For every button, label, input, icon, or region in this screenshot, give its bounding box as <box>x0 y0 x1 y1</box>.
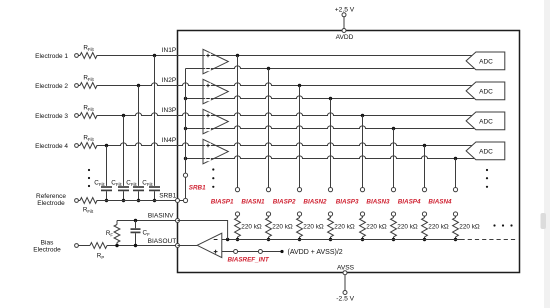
wire ref electrode to RFilt <box>78 200 80 202</box>
switch BIASN2 open <box>328 188 332 217</box>
svg-text:CF: CF <box>143 230 151 238</box>
resistor 220k 8 <box>453 218 480 237</box>
switch BIASN4 open <box>453 188 457 217</box>
wire switch BIASP4 to resistor <box>424 216 426 218</box>
wire Cfilt column 3 top <box>138 86 140 186</box>
wire BIASINV external <box>117 219 178 222</box>
net BIASP2 red label <box>273 198 296 205</box>
ellipsis more resistors <box>493 224 512 226</box>
wire IN1N row <box>186 66 475 70</box>
resistor RFilt channel 4 <box>80 134 97 148</box>
wire switch BIASP3 to resistor <box>362 216 364 218</box>
node Electrode 4 input label <box>35 143 68 150</box>
svg-text:BIASN2: BIASN2 <box>303 198 327 205</box>
switch SRB1 closed <box>183 173 187 203</box>
svg-text:AVDD: AVDD <box>336 34 354 41</box>
svg-text:Reference: Reference <box>36 193 66 200</box>
svg-text:BIASREF_INT: BIASREF_INT <box>228 256 270 263</box>
node Electrode 2 input label <box>35 83 68 90</box>
node Electrode 1 input label <box>35 53 68 60</box>
wire BIASP2 tap <box>299 86 301 188</box>
pin IN4P label <box>162 137 176 144</box>
pin BIASOUT label <box>148 238 177 245</box>
wire IN3P row <box>97 113 475 117</box>
node Reference Electrode label <box>36 193 66 207</box>
switch BIASN3 open <box>391 188 395 217</box>
wire IN4N row <box>184 156 474 160</box>
svg-text:ADC: ADC <box>479 148 493 155</box>
svg-text:RFilt: RFilt <box>83 74 94 82</box>
resistor 220k 1 <box>235 218 262 237</box>
resistor RF <box>106 221 120 246</box>
wire electrode 3 to RFilt <box>78 115 80 117</box>
wire switch BIASN1 to resistor <box>268 216 270 218</box>
wire IN2P row <box>97 83 475 87</box>
svg-text:BIASOUT: BIASOUT <box>148 238 177 245</box>
svg-text:IN4P: IN4P <box>162 137 176 144</box>
supply +2.5 V terminal <box>335 6 355 16</box>
net BIASP4 red label <box>398 198 421 205</box>
ADC channel 2 <box>466 82 505 100</box>
electrode 1 terminal <box>75 54 79 58</box>
wire IN2N row <box>184 96 474 100</box>
wire resistor 8 to bus <box>454 237 457 241</box>
svg-text:Bias: Bias <box>41 239 54 246</box>
svg-text:BIASINV: BIASINV <box>148 213 174 220</box>
resistor RP <box>90 243 107 261</box>
svg-text:IN1P: IN1P <box>162 47 176 54</box>
wire resistor 2 to bus <box>267 237 270 241</box>
wire BIASINV internal <box>178 221 228 240</box>
wire resistor 3 to bus <box>298 237 301 241</box>
pin BIASINV <box>176 219 180 223</box>
svg-text:CFilt: CFilt <box>111 179 122 187</box>
svg-text:ADC: ADC <box>479 88 493 95</box>
svg-text:Electrode 1: Electrode 1 <box>35 53 68 60</box>
switch BIASP2 open <box>297 188 301 217</box>
resistor 220k 2 <box>266 218 293 237</box>
svg-text:(AVDD + AVSS)/2: (AVDD + AVSS)/2 <box>288 249 343 256</box>
node Electrode 3 input label <box>35 113 68 120</box>
resistor RFilt reference <box>80 198 97 214</box>
supply -2.5 V terminal <box>336 291 354 303</box>
wire BIASOUT external <box>107 244 178 247</box>
electrode 4 terminal <box>75 144 79 148</box>
svg-text:RF: RF <box>106 230 114 238</box>
wire AVSS to -2.5V <box>344 275 346 291</box>
net SRB1 red label <box>189 184 206 191</box>
capacitor CF <box>131 221 151 246</box>
svg-text:BIASP3: BIASP3 <box>336 198 359 205</box>
ADC channel 1 <box>466 52 505 70</box>
ADC channel 4 <box>466 142 505 160</box>
net BIASREF_INT red label <box>228 256 270 263</box>
ADC channel 3 <box>466 112 505 130</box>
op-amp PGA channel 4 <box>203 139 228 164</box>
ellipsis left channels <box>88 169 90 187</box>
pin BIASOUT <box>176 244 180 248</box>
svg-text:ADC: ADC <box>479 58 493 65</box>
electrode 2 terminal <box>75 84 79 88</box>
pin AVDD <box>336 29 354 42</box>
pin IN2P label <box>162 77 176 84</box>
svg-text:Electrode: Electrode <box>37 200 65 207</box>
wire BIASN2 tap <box>330 99 332 188</box>
svg-text:RFilt: RFilt <box>83 134 94 142</box>
resistor 220k 4 <box>328 218 355 237</box>
svg-text:CFilt: CFilt <box>142 179 153 187</box>
switch BIASN1 open <box>266 188 270 217</box>
wire electrode 1 to RFilt <box>78 55 80 57</box>
svg-text:RFilt: RFilt <box>83 206 94 214</box>
svg-text:ADC: ADC <box>479 118 493 125</box>
svg-text:220 kΩ: 220 kΩ <box>272 223 293 230</box>
wire +2.5V to AVDD pin <box>343 17 345 29</box>
svg-text:Electrode 2: Electrode 2 <box>35 83 68 90</box>
wire electrode 4 to RFilt <box>78 145 80 147</box>
net BIASP3 red label <box>336 198 359 205</box>
svg-text:IN2P: IN2P <box>162 77 176 84</box>
wire IN4P row <box>97 143 475 147</box>
svg-text:220 kΩ: 220 kΩ <box>366 223 387 230</box>
op-amp bias driver U5 <box>197 233 222 257</box>
wire Cfilt column 4 bottom <box>153 191 156 202</box>
wire bias electrode to RP <box>78 245 90 247</box>
wire resistor 6 to bus <box>392 237 395 241</box>
op-amp PGA channel 1 <box>203 49 228 74</box>
ellipsis internal channels <box>212 168 214 188</box>
svg-text:BIASP4: BIASP4 <box>398 198 421 205</box>
svg-text:-2.5 V: -2.5 V <box>336 295 354 302</box>
resistor RFilt channel 2 <box>80 74 97 88</box>
switch BIASP4 open <box>422 188 426 217</box>
net BIASP1 red label <box>211 198 234 205</box>
wire electrode 2 to RFilt <box>78 85 80 87</box>
svg-text:RFilt: RFilt <box>83 44 94 52</box>
wire switch BIASP1 to resistor <box>237 216 239 218</box>
op-amp PGA channel 2 <box>203 79 228 104</box>
svg-text:IN3P: IN3P <box>162 107 176 114</box>
svg-text:220 kΩ: 220 kΩ <box>459 223 480 230</box>
wire Cfilt column 1 top <box>106 146 108 186</box>
wire Cfilt column 2 bottom <box>122 191 125 202</box>
resistor RFilt channel 1 <box>80 44 97 58</box>
capacitor CFilt 2 <box>111 179 129 190</box>
wire resistor 4 to bus <box>329 237 332 241</box>
net BIASN2 red label <box>303 198 327 205</box>
svg-text:220 kΩ: 220 kΩ <box>334 223 355 230</box>
pin SRB1 label <box>159 192 176 199</box>
wire Cfilt column 2 top <box>123 116 125 186</box>
ellipsis right channels <box>486 169 488 188</box>
svg-text:RFilt: RFilt <box>83 104 94 112</box>
resistor 220k 6 <box>391 218 418 237</box>
electrode 3 terminal <box>75 114 79 118</box>
svg-text:Electrode 4: Electrode 4 <box>35 143 68 150</box>
svg-text:Electrode: Electrode <box>33 247 61 254</box>
capacitor CFilt 3 <box>126 179 144 190</box>
reference electrode terminal <box>75 199 79 203</box>
IC boundary box <box>178 31 520 273</box>
pin IN3P label <box>162 107 176 114</box>
svg-text:BIASN4: BIASN4 <box>428 198 452 205</box>
wire resistor 5 to bus <box>361 237 364 241</box>
node Bias Electrode label <box>33 239 61 253</box>
wire BIASP1 tap <box>237 56 239 188</box>
svg-text:CFilt: CFilt <box>94 179 105 187</box>
net BIASN1 red label <box>241 198 265 205</box>
resistor 220k 3 <box>297 218 324 237</box>
wire switch BIASN4 to resistor <box>455 216 457 218</box>
wire switch BIASN3 to resistor <box>393 216 395 218</box>
wire BIASP4 tap <box>424 146 426 188</box>
svg-text:SRB1: SRB1 <box>159 192 176 199</box>
wire BIASN1 tap <box>268 69 270 188</box>
wire IN3N row <box>184 126 474 130</box>
svg-text:220 kΩ: 220 kΩ <box>397 223 418 230</box>
pin BIASINV label <box>148 213 174 220</box>
wire switch BIASN2 to resistor <box>330 216 332 218</box>
wire SRB bus vertical <box>185 69 187 174</box>
net BIASN4 red label <box>428 198 452 205</box>
wire Cfilt column 3 bottom <box>137 191 140 202</box>
wire BIASP3 tap <box>362 116 364 188</box>
wire Cfilt column 4 top <box>154 56 156 186</box>
svg-text:BIASP2: BIASP2 <box>273 198 296 205</box>
svg-text:BIASP1: BIASP1 <box>211 198 234 205</box>
svg-text:RP: RP <box>97 253 105 261</box>
resistor 220k 7 <box>422 218 449 237</box>
svg-text:220 kΩ: 220 kΩ <box>428 223 449 230</box>
wire BIASN4 tap <box>455 159 457 188</box>
wire bias amp inverting bus <box>222 238 461 241</box>
wire resistor 1 to bus <box>236 237 239 241</box>
wire SRB1 line <box>97 200 186 202</box>
net BIASN3 red label <box>366 198 390 205</box>
pin AVSS <box>337 265 355 275</box>
wire bias bus dashed continuation <box>461 239 517 241</box>
wire resistor 7 to bus <box>423 237 426 241</box>
switch BIASP1 open <box>235 188 239 217</box>
svg-text:BIASN1: BIASN1 <box>241 198 265 205</box>
svg-text:+2.5 V: +2.5 V <box>335 6 355 13</box>
capacitor CFilt 4 <box>142 179 160 190</box>
bias electrode terminal <box>75 244 79 248</box>
svg-text:SRB1: SRB1 <box>189 184 206 191</box>
wire BIASOUT internal <box>178 245 198 247</box>
svg-text:220 kΩ: 220 kΩ <box>303 223 324 230</box>
wire IN1P row <box>97 54 475 57</box>
capacitor CFilt 1 <box>94 179 112 190</box>
op-amp PGA channel 3 <box>203 109 228 134</box>
svg-text:220 kΩ: 220 kΩ <box>241 223 262 230</box>
svg-text:Electrode 3: Electrode 3 <box>35 113 68 120</box>
pin IN1P label <box>162 47 176 54</box>
wire Cfilt column 1 bottom <box>105 191 108 202</box>
resistor 220k 5 <box>360 218 387 237</box>
resistor RFilt channel 3 <box>80 104 97 118</box>
page scrollbar strip <box>541 0 550 308</box>
node (AVDD+AVSS)/2 label <box>288 249 343 256</box>
svg-text:BIASN3: BIASN3 <box>366 198 390 205</box>
wire switch BIASP2 to resistor <box>299 216 301 218</box>
pin SRB1 <box>176 199 180 203</box>
svg-text:CFilt: CFilt <box>126 179 137 187</box>
wire BIASREF with switch <box>222 250 284 254</box>
wire BIASN3 tap <box>393 129 395 188</box>
switch BIASP3 open <box>360 188 364 217</box>
